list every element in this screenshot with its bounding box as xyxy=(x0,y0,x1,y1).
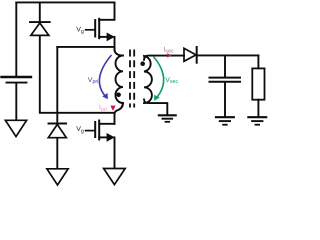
svg-text:Vsec: Vsec xyxy=(165,77,178,85)
svg-text:Vg: Vg xyxy=(76,27,84,35)
svg-text:Ipri: Ipri xyxy=(99,105,107,113)
svg-text:Isec: Isec xyxy=(163,46,174,54)
svg-text:Vg: Vg xyxy=(76,126,84,134)
svg-text:Vpri: Vpri xyxy=(88,77,99,85)
